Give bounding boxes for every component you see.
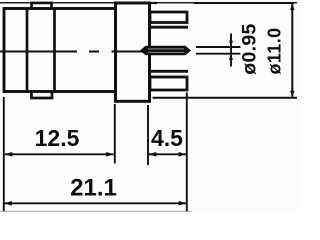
svg-text:ø0.95: ø0.95 — [239, 23, 261, 74]
svg-text:12.5: 12.5 — [35, 125, 80, 151]
svg-text:4.5: 4.5 — [151, 125, 183, 151]
svg-text:ø11.0: ø11.0 — [265, 27, 285, 74]
svg-text:21.1: 21.1 — [70, 175, 117, 202]
